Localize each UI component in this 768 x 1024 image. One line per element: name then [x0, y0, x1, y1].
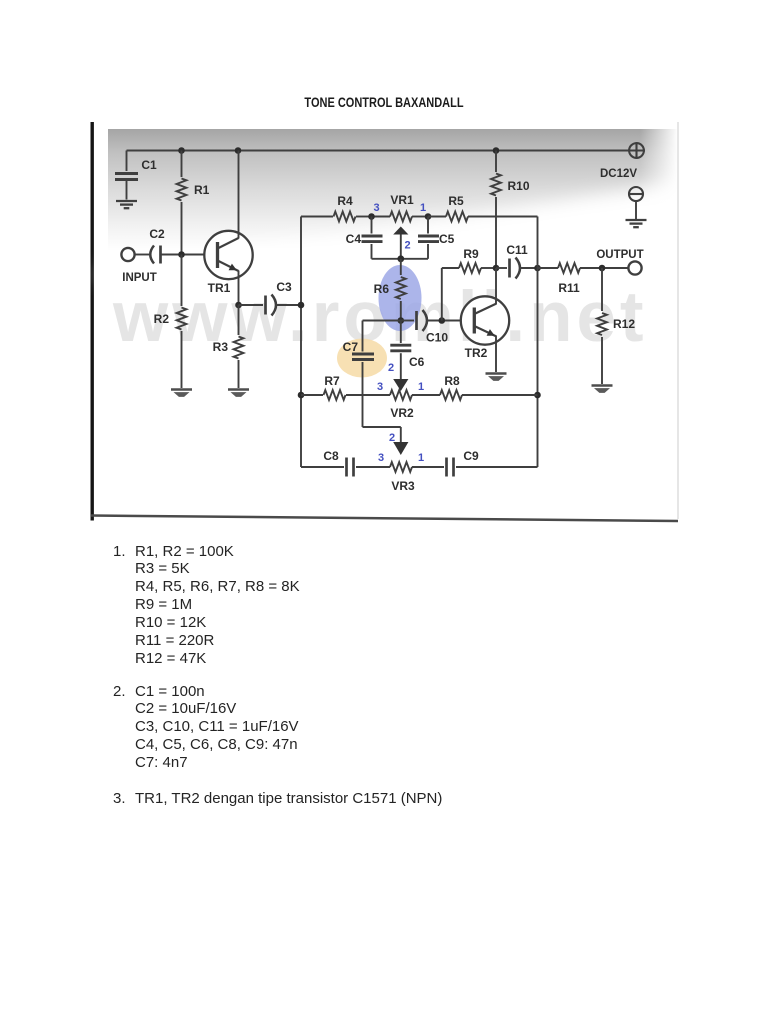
- wiper arrow VR3: [393, 442, 408, 455]
- terminal DC12V positive: [629, 143, 644, 158]
- schematic panel right faint border: [677, 122, 678, 519]
- highlight ellipse over R6: [379, 265, 422, 331]
- wire right feedback bus: [537, 217, 539, 468]
- svg-text:C2: C2: [149, 227, 165, 241]
- transistor TR2: [461, 296, 509, 344]
- resistor R3: [238, 305, 240, 335]
- svg-text:OUTPUT: OUTPUT: [596, 249, 643, 261]
- resistor R7: [301, 394, 323, 396]
- ground below R3: [228, 388, 249, 390]
- ground below negative terminal: [626, 219, 647, 221]
- svg-text:R12: R12: [613, 317, 635, 331]
- svg-text:R7: R7: [324, 374, 340, 388]
- node emitter/C3/R3: [235, 302, 242, 309]
- node rail-R1: [178, 147, 185, 154]
- capacitor C1: [126, 151, 128, 172]
- svg-text:R9: R9: [463, 247, 479, 261]
- resistor R10: [495, 151, 497, 173]
- schematic panel bottom border: [91, 516, 678, 522]
- svg-text:3: 3: [373, 202, 379, 214]
- wire input to C2: [135, 254, 149, 256]
- capacitor C11: [496, 267, 507, 269]
- resistor R6: [400, 259, 402, 275]
- capacitor C10: [401, 320, 414, 322]
- wire TR1 emitter down: [238, 271, 240, 306]
- capacitor C4: [371, 217, 373, 234]
- resistor R9: [442, 267, 459, 269]
- node VR1 pin1: [425, 213, 432, 220]
- svg-text:R10: R10: [508, 179, 530, 193]
- svg-text:R3: R3: [213, 340, 229, 354]
- svg-text:C7: C7: [343, 340, 359, 354]
- parts list item 3: transistors: [113, 790, 442, 808]
- svg-text:VR1: VR1: [390, 193, 414, 207]
- svg-text:C1: C1: [141, 158, 157, 172]
- node R6/C6/C7/C10: [398, 317, 405, 324]
- terminal DC12V negative: [629, 187, 643, 201]
- resistor R1: [181, 151, 183, 178]
- wire C4-C5 junction bar: [372, 258, 429, 260]
- node VR1 wiper join: [397, 255, 404, 262]
- capacitor C5: [427, 217, 429, 234]
- ground below R12: [592, 384, 613, 386]
- svg-text:R8: R8: [444, 374, 460, 388]
- svg-text:C9: C9: [463, 449, 479, 463]
- svg-text:C8: C8: [323, 449, 339, 463]
- svg-text:C5: C5: [439, 232, 455, 246]
- svg-text:VR2: VR2: [390, 406, 414, 420]
- node R9 branch: [439, 317, 446, 324]
- wire top supply rail: [127, 150, 630, 152]
- wire TR2 collector up: [495, 268, 497, 304]
- node rail-TR1 collector: [235, 147, 242, 154]
- wire C2 to TR1 base: [161, 254, 218, 256]
- svg-text:2: 2: [389, 432, 395, 444]
- capacitor C9: [445, 458, 448, 477]
- svg-text:3: 3: [377, 381, 383, 393]
- svg-text:1: 1: [420, 202, 426, 214]
- schematic panel header gradient band: [108, 129, 678, 251]
- wire left feedback bus: [300, 217, 302, 468]
- capacitor C7: [363, 320, 401, 322]
- svg-text:3: 3: [378, 452, 384, 464]
- svg-text:INPUT: INPUT: [122, 272, 157, 284]
- node R12 branch: [599, 265, 606, 272]
- capacitor C6: [400, 321, 402, 344]
- node bus-VR2 row: [298, 392, 305, 399]
- capacitor C3: [239, 304, 264, 306]
- svg-text:C6: C6: [409, 355, 425, 369]
- schematic panel left black border: [91, 122, 94, 521]
- wire C7 to VR3 wiper: [363, 426, 401, 428]
- wiper arrow VR2: [393, 379, 408, 391]
- node C11-right bus: [534, 265, 541, 272]
- wire TR2 emitter down: [495, 336, 497, 372]
- svg-text:VR3: VR3: [391, 479, 415, 493]
- resistor R4: [301, 216, 333, 218]
- node rail-R10: [493, 147, 500, 154]
- resistor R5: [428, 216, 446, 218]
- svg-text:R4: R4: [337, 194, 353, 208]
- transistor TR1: [204, 231, 252, 279]
- potentiometer VR3: [390, 462, 412, 472]
- resistor R2: [181, 255, 183, 307]
- svg-text:R1: R1: [194, 183, 210, 197]
- svg-text:TR1: TR1: [208, 281, 231, 295]
- resistor R12: [601, 268, 603, 311]
- potentiometer VR2: [390, 390, 412, 400]
- svg-text:1: 1: [418, 452, 424, 464]
- wire TR1 collector to rail: [238, 151, 240, 239]
- svg-text:2: 2: [404, 240, 410, 252]
- node VR1 pin3: [368, 213, 375, 220]
- watermark www.romli.net: [112, 278, 648, 357]
- capacitor C8: [301, 466, 344, 468]
- parts list item 1: resistors: [113, 543, 300, 669]
- potentiometer VR1: [371, 216, 390, 218]
- wiper arrow VR1: [393, 227, 408, 235]
- svg-text:R6: R6: [374, 282, 390, 296]
- node C3 joins bus: [298, 302, 305, 309]
- svg-text:TR2: TR2: [465, 346, 488, 360]
- ground below C1: [116, 200, 137, 202]
- svg-text:2: 2: [388, 362, 394, 374]
- band diagonal white fade: [80, 178, 710, 276]
- svg-text:C11: C11: [506, 243, 528, 257]
- parts list item 2: capacitors: [113, 683, 299, 773]
- resistor R11: [538, 267, 559, 269]
- node base TR1 / R1 / R2: [178, 251, 185, 258]
- wire R9 branch vertical: [441, 268, 443, 321]
- svg-text:1: 1: [418, 381, 424, 393]
- svg-text:R2: R2: [154, 312, 170, 326]
- ground below R2: [171, 388, 192, 390]
- ground below TR2: [486, 372, 507, 374]
- node R10/R9/C11/TR2 collector: [493, 265, 500, 272]
- resistor R8: [440, 390, 462, 400]
- svg-text:C4: C4: [346, 232, 362, 246]
- terminal INPUT: [121, 248, 134, 261]
- svg-text:R5: R5: [448, 194, 464, 208]
- svg-text:C10: C10: [426, 331, 448, 345]
- svg-text:C3: C3: [276, 280, 292, 294]
- wire negative to ground: [635, 201, 637, 219]
- highlight ellipse over C7: [337, 339, 387, 378]
- svg-text:R11: R11: [558, 281, 580, 295]
- terminal OUTPUT: [628, 261, 641, 274]
- svg-text:DC12V: DC12V: [600, 168, 637, 180]
- capacitor C2: [150, 246, 154, 264]
- node bus-VR2 row right: [534, 392, 541, 399]
- title: [71, 95, 697, 110]
